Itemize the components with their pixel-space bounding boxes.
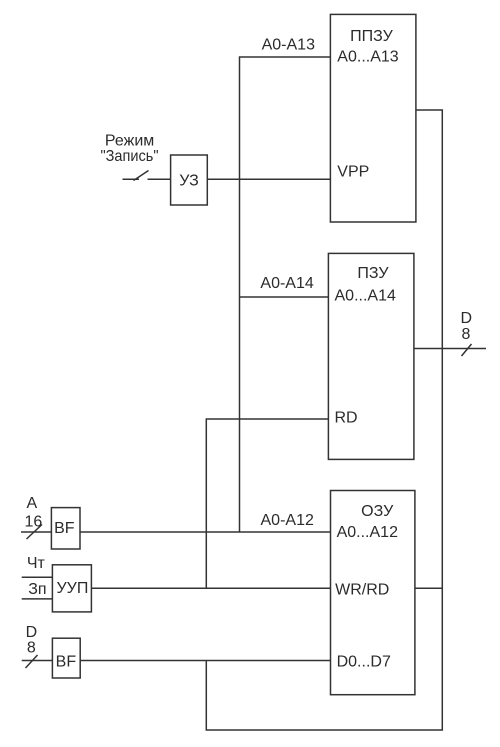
svg-text:А0...А14: А0...А14 [335, 288, 396, 305]
svg-text:8: 8 [27, 640, 36, 657]
svg-text:16: 16 [25, 514, 43, 531]
svg-text:Чт: Чт [27, 555, 46, 572]
svg-text:А0-А13: А0-А13 [262, 37, 315, 54]
svg-text:А0...А12: А0...А12 [337, 524, 398, 541]
svg-text:А0...А13: А0...А13 [337, 49, 398, 66]
svg-text:VPP: VPP [337, 163, 369, 180]
svg-text:D: D [461, 310, 473, 327]
svg-text:8: 8 [462, 326, 471, 343]
svg-text:А: А [27, 495, 38, 512]
svg-text:D0...D7: D0...D7 [337, 654, 391, 671]
svg-text:А0-А14: А0-А14 [260, 275, 313, 292]
svg-text:ПЗУ: ПЗУ [357, 265, 389, 282]
svg-text:D: D [26, 624, 38, 641]
svg-text:WR/RD: WR/RD [335, 582, 389, 599]
svg-text:ОЗУ: ОЗУ [361, 503, 394, 520]
svg-text:"Запись": "Запись" [101, 148, 159, 165]
svg-text:BF: BF [56, 654, 77, 671]
svg-text:УЗ: УЗ [179, 173, 198, 190]
svg-text:А0-А12: А0-А12 [261, 512, 314, 529]
svg-text:ППЗУ: ППЗУ [350, 28, 393, 45]
svg-text:Зп: Зп [28, 581, 46, 598]
svg-text:RD: RD [335, 410, 358, 427]
svg-text:УУП: УУП [56, 580, 88, 597]
svg-text:BF: BF [54, 520, 75, 537]
